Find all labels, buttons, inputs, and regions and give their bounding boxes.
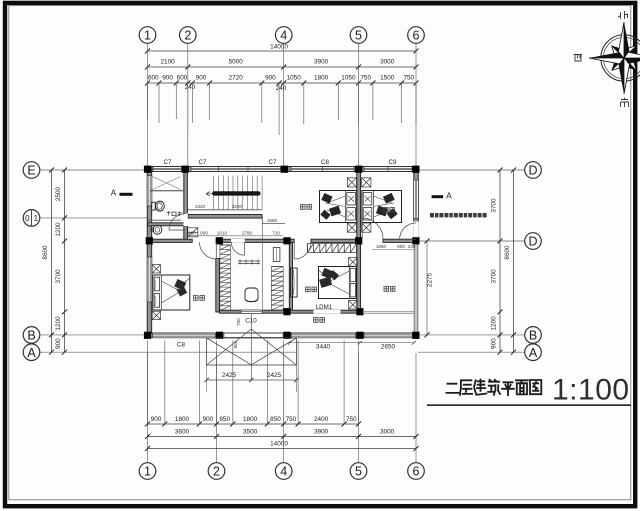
label bedroom (bottom-left) 卧室 <box>194 296 205 301</box>
right axis circle D <box>525 162 542 179</box>
nightstand bedroom3 foot <box>152 311 160 319</box>
wall bathroom east <box>184 172 188 216</box>
svg-text:D: D <box>528 164 537 178</box>
wardrobe study west (hatched) <box>220 245 230 311</box>
wall axis-D right segment <box>383 239 416 242</box>
door right wall <box>400 223 416 239</box>
label bedroom (top-right A) 卧室 <box>301 205 312 210</box>
compass rose <box>589 22 640 94</box>
svg-text:E: E <box>27 164 35 178</box>
column axis-D x5 <box>355 237 362 244</box>
svg-text:1320: 1320 <box>195 204 206 209</box>
wall south of bedrooms (axis B-1200) <box>220 310 361 313</box>
svg-text:A: A <box>446 190 452 200</box>
column axis-B1200 x4 <box>283 308 290 315</box>
svg-text:710: 710 <box>272 230 280 235</box>
svg-text:900: 900 <box>55 338 62 349</box>
label balcony east 阳台 <box>384 287 395 292</box>
window C8 bottom-left bedroom <box>153 333 216 338</box>
svg-text:14000: 14000 <box>270 44 288 51</box>
compass label west <box>574 55 583 62</box>
svg-text:8600: 8600 <box>42 245 49 260</box>
wall bathroom south <box>148 223 187 226</box>
svg-text:A: A <box>529 346 538 360</box>
svg-text:1200: 1200 <box>491 316 498 331</box>
title 二层建筑平面图 (drawn strokes) <box>446 380 541 396</box>
study niche cabinet <box>273 248 280 262</box>
svg-text:3250: 3250 <box>232 204 243 209</box>
label bedroom (top-right B) 公被房 <box>384 208 395 213</box>
right axis connector lines <box>418 169 525 171</box>
wall between top bedrooms <box>357 172 361 240</box>
svg-text:1: 1 <box>34 214 39 223</box>
left dim chain lines <box>51 170 53 352</box>
window bottom balcony (2650) <box>364 333 413 338</box>
left axis circle 1/D (subsidiary) <box>23 210 40 227</box>
bathroom shower divider <box>151 190 184 192</box>
wall mid bedroom east <box>357 242 361 312</box>
svg-text:14000: 14000 <box>270 441 288 448</box>
wall bottom exterior <box>145 333 419 338</box>
bed 4 (mid bedroom) <box>319 267 357 299</box>
left axis connector lines <box>40 169 147 171</box>
svg-text:C10: C10 <box>245 317 257 324</box>
svg-text:2650: 2650 <box>381 344 396 351</box>
svg-text:750: 750 <box>346 416 357 423</box>
wall right exterior upper <box>414 167 419 244</box>
wall top exterior <box>145 167 419 172</box>
svg-text:2400: 2400 <box>314 416 329 423</box>
LDM1 door opening <box>314 310 341 314</box>
svg-text:1860: 1860 <box>376 244 387 249</box>
window bottom mid (3440) <box>292 333 356 338</box>
section marker A right <box>432 195 444 198</box>
window bedroom left <box>147 257 152 302</box>
toilet bowl <box>156 201 165 211</box>
wall left exterior <box>147 167 152 338</box>
wall mid bedroom west <box>289 242 292 312</box>
window top-right bedroom east <box>414 180 419 219</box>
svg-text:240: 240 <box>276 85 287 92</box>
svg-text:2275: 2275 <box>427 272 434 287</box>
window C7 stair band <box>191 167 281 172</box>
bathroom door opening <box>183 214 187 227</box>
svg-text:1800: 1800 <box>243 416 258 423</box>
svg-text:2425: 2425 <box>222 372 237 379</box>
top axis circles 1 2 4 5 6 <box>139 27 156 44</box>
wardrobe mid bedroom (hatched) <box>308 244 357 253</box>
stair lower flight edge <box>188 209 262 211</box>
wall hall west upper <box>184 226 188 242</box>
svg-text:850: 850 <box>270 416 281 423</box>
wall stair south <box>188 215 262 219</box>
porch opening double line <box>224 333 283 337</box>
nightstand bedroom3 head <box>152 265 160 273</box>
window C9 top bedroom right <box>364 167 412 172</box>
svg-text:1: 1 <box>144 465 151 479</box>
svg-text:2: 2 <box>184 29 191 43</box>
column hall axis-D <box>216 237 223 244</box>
svg-text:3700: 3700 <box>491 269 498 284</box>
svg-text:3700: 3700 <box>491 198 498 213</box>
title underline <box>427 404 631 406</box>
door bedroom3 (hall to bottom-left bedroom) <box>200 242 217 259</box>
svg-text:3900: 3900 <box>314 59 329 66</box>
bathroom label 卫生间 <box>167 211 182 216</box>
bed 2 (top-right room B) <box>362 191 402 223</box>
svg-text:C8: C8 <box>321 159 329 166</box>
label study 电脑室兼衣帽间 <box>238 260 260 265</box>
porch roof outline <box>207 338 297 365</box>
svg-text:1500: 1500 <box>380 75 395 82</box>
svg-text:4: 4 <box>280 465 287 479</box>
svg-text:900: 900 <box>203 416 214 423</box>
column bottom axis5 <box>356 332 363 339</box>
svg-text:A: A <box>27 346 36 360</box>
svg-text:900: 900 <box>491 338 498 349</box>
svg-text:C7: C7 <box>164 159 172 166</box>
nightstand NE <box>362 178 371 187</box>
column top axis6 <box>412 166 419 173</box>
svg-text:2500: 2500 <box>55 186 62 201</box>
svg-text:1800: 1800 <box>314 75 329 82</box>
wall hall/bedroom vertical <box>216 259 220 313</box>
svg-text:955: 955 <box>233 340 238 348</box>
left axis circle A <box>23 344 40 361</box>
bed 3 (bottom-left bedroom) <box>153 275 190 310</box>
door mid bedroom <box>294 242 311 259</box>
compass label north <box>618 11 628 19</box>
right wall door opening <box>414 222 419 240</box>
nightstand mid bedroom S <box>349 300 358 309</box>
svg-text:1200: 1200 <box>55 316 62 331</box>
window C10 <box>241 310 262 313</box>
svg-text:5: 5 <box>355 29 362 43</box>
window C7 top-left <box>153 167 182 172</box>
svg-text:900: 900 <box>151 416 162 423</box>
door top-right bedroom <box>362 218 383 239</box>
left axis circle B <box>23 327 40 344</box>
balcony east railing <box>414 243 418 333</box>
balcony divider line <box>362 311 414 313</box>
stair corner notch <box>262 215 285 224</box>
porch centre line <box>250 313 252 380</box>
svg-text:1: 1 <box>144 29 151 43</box>
porch dim 2425 line <box>207 379 297 381</box>
corridor dim line <box>186 235 283 237</box>
svg-text:C9: C9 <box>389 159 397 166</box>
column bottom axis2 <box>216 332 223 339</box>
hall shoe cabinet <box>188 228 198 237</box>
svg-text:B: B <box>529 329 537 343</box>
label bedroom (mid) 卧室 <box>306 287 317 292</box>
wash basin <box>153 225 162 234</box>
label balcony south 阳台 <box>314 318 325 323</box>
svg-text:B: B <box>27 329 35 343</box>
svg-text:900: 900 <box>196 75 207 82</box>
svg-text:5: 5 <box>355 465 362 479</box>
svg-text:750: 750 <box>286 416 297 423</box>
column top axis2 <box>182 166 189 173</box>
svg-text:4: 4 <box>280 29 287 43</box>
svg-text:850: 850 <box>219 416 230 423</box>
svg-text:5000: 5000 <box>229 59 244 66</box>
porch roof hip diagonals <box>207 329 297 365</box>
svg-text:960: 960 <box>188 230 196 235</box>
svg-text:3440: 3440 <box>316 344 331 351</box>
nightstand NW <box>347 178 356 187</box>
stair treads <box>214 176 263 210</box>
column top axis4 <box>281 166 288 173</box>
svg-text:900: 900 <box>162 75 173 82</box>
right axis circle D2 <box>525 233 542 250</box>
column top axis1 <box>144 166 151 173</box>
svg-text:LDM1: LDM1 <box>316 304 333 311</box>
svg-text:3500: 3500 <box>243 429 258 436</box>
column bottom axis1 <box>144 332 151 339</box>
svg-text:900: 900 <box>397 244 405 249</box>
svg-text:2: 2 <box>213 465 220 479</box>
column left wall axis-D <box>146 237 153 244</box>
toilet tank <box>152 202 156 210</box>
column bottom axis4 <box>283 332 290 339</box>
wall axis-D middle segment <box>216 239 294 242</box>
column axis-B1200 x5 <box>356 308 363 315</box>
svg-text:1580: 1580 <box>267 218 278 223</box>
svg-text:1:100: 1:100 <box>552 374 630 407</box>
svg-text:0: 0 <box>25 214 30 223</box>
door bathroom <box>169 214 185 230</box>
left axis circle E <box>23 162 40 179</box>
nightstand mid bedroom N <box>349 258 358 267</box>
svg-text:2780: 2780 <box>242 230 253 235</box>
top extension lines <box>147 83 149 119</box>
column bottom axis6 <box>412 332 419 339</box>
study door opening <box>231 239 245 243</box>
stair handrail bar <box>212 191 261 195</box>
dresser mid bedroom <box>291 268 298 297</box>
column axis-D x6 <box>412 237 419 244</box>
svg-text:900: 900 <box>200 230 208 235</box>
svg-text:C7: C7 <box>269 159 277 166</box>
dim 3440/2650 <box>290 342 414 344</box>
svg-text:1050: 1050 <box>341 75 356 82</box>
nightstand SE <box>362 223 371 232</box>
study east boundary <box>261 224 263 310</box>
svg-text:2720: 2720 <box>229 75 244 82</box>
svg-text:750: 750 <box>403 75 414 82</box>
compass label south <box>621 98 629 108</box>
nightstand SW <box>347 223 356 232</box>
wall axis-D bedroom segment <box>311 239 360 242</box>
svg-text:C7: C7 <box>199 159 207 166</box>
svg-text:6: 6 <box>413 465 420 479</box>
window bathroom left <box>147 176 152 207</box>
svg-text:3700: 3700 <box>55 269 62 284</box>
svg-text:8600: 8600 <box>504 245 511 260</box>
right axis circle B <box>525 327 542 344</box>
svg-text:3000: 3000 <box>380 429 395 436</box>
svg-text:3900: 3900 <box>314 429 329 436</box>
svg-text:3600: 3600 <box>175 429 190 436</box>
column top axis5 <box>355 166 362 173</box>
svg-text:240: 240 <box>408 244 416 249</box>
bathroom inner divider <box>148 219 182 221</box>
svg-text:1050: 1050 <box>287 75 302 82</box>
wall axis-D left segment <box>147 239 192 242</box>
bed 1 (top-right room A) <box>320 191 357 223</box>
svg-text:C8: C8 <box>177 342 185 349</box>
svg-text:750: 750 <box>360 75 371 82</box>
bottom axis circles 1 2 4 5 6 <box>139 463 156 480</box>
column axis-D x4 <box>283 237 290 244</box>
svg-text:1800: 1800 <box>175 416 190 423</box>
right axis circle A <box>525 344 542 361</box>
wardrobe study east (hatched) <box>271 267 283 311</box>
svg-text:2425: 2425 <box>267 372 282 379</box>
svg-text:1200: 1200 <box>55 222 62 237</box>
svg-text:2100: 2100 <box>160 59 175 66</box>
svg-text:900: 900 <box>265 75 276 82</box>
right annotation tiny text <box>430 213 434 217</box>
svg-text:700: 700 <box>236 318 241 326</box>
right dim chain lines <box>499 170 501 352</box>
door study <box>231 242 244 255</box>
svg-text:3000: 3000 <box>380 59 395 66</box>
svg-text:A: A <box>111 187 117 197</box>
svg-text:D: D <box>528 235 537 249</box>
svg-text:1010: 1010 <box>217 230 228 235</box>
study chair <box>245 288 258 302</box>
svg-text:6: 6 <box>413 29 420 43</box>
window C8 top bedroom <box>291 167 354 172</box>
balcony inner dim 2275 <box>426 241 428 335</box>
